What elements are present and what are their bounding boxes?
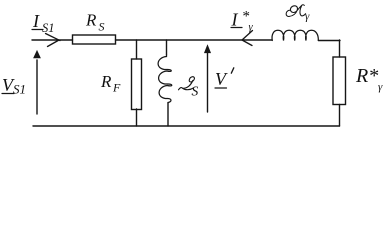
label I*_r xyxy=(231,9,254,34)
phasor underline V_S1 xyxy=(2,93,14,95)
svg-text:V: V xyxy=(215,69,228,89)
top wire xyxy=(32,39,340,42)
label R_F xyxy=(100,72,121,95)
phasor underline I*_r xyxy=(231,27,242,29)
inductor L_S coil xyxy=(158,55,172,103)
voltage arrow V' xyxy=(204,45,210,112)
label R_S xyxy=(85,11,105,34)
prime mark of V' xyxy=(231,68,234,73)
label V' xyxy=(215,69,228,89)
phasor underline I_S1 xyxy=(32,29,43,31)
wire LS coil bottom xyxy=(167,103,169,126)
wire right vertical to R*r xyxy=(339,40,341,126)
svg-text:S: S xyxy=(99,20,105,34)
bottom wire xyxy=(33,125,340,127)
label R*_r xyxy=(355,65,383,93)
resistor R_S xyxy=(73,35,116,44)
wire junction drop to RF xyxy=(136,40,138,59)
svg-text:R*: R* xyxy=(355,65,378,87)
phasor underline V' xyxy=(215,87,227,89)
resistor R_F xyxy=(132,59,142,110)
wire junction drop to LS coil xyxy=(166,40,168,55)
svg-text:I: I xyxy=(231,10,239,30)
resistor R*_r xyxy=(333,57,346,105)
svg-text:F: F xyxy=(112,81,121,95)
label V_S1 xyxy=(2,75,26,97)
svg-text:γ: γ xyxy=(378,81,383,93)
svg-text:S: S xyxy=(192,84,199,99)
voltage arrow V_S1 xyxy=(34,51,41,114)
svg-text:γ: γ xyxy=(305,11,310,23)
current arrow I*_r xyxy=(242,31,253,46)
svg-text:S1: S1 xyxy=(42,21,55,35)
label script L_S xyxy=(179,77,195,90)
svg-text:R: R xyxy=(100,72,112,91)
svg-text:S1: S1 xyxy=(13,82,26,97)
inductor N_r coil xyxy=(272,30,318,40)
label script N_r xyxy=(286,5,305,17)
svg-text:I: I xyxy=(32,11,40,31)
label I_S1 xyxy=(32,11,55,35)
svg-text:γ: γ xyxy=(249,22,254,33)
wire RF bottom xyxy=(136,109,138,126)
svg-text:R: R xyxy=(85,11,97,30)
current arrow I_S1 xyxy=(46,34,61,47)
